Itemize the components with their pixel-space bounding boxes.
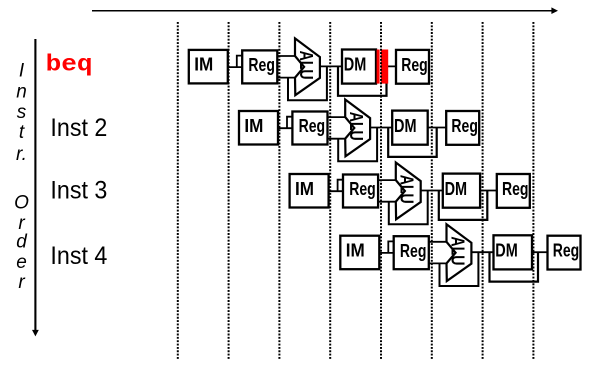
wire ALU to DM row2 [370,127,392,129]
svg-text:Reg: Reg [553,240,580,261]
Reg box (write) row2 [446,111,479,145]
svg-text:IM: IM [194,54,213,75]
ALU row2 [345,100,370,157]
wire ALU bypass bracket row4 [440,252,479,286]
Reg box (read) row4 [394,236,429,269]
svg-text:ALU: ALU [296,51,316,80]
svg-text:O: O [14,193,29,214]
svg-text:ALU: ALU [346,112,366,141]
svg-text:IM: IM [244,115,263,136]
svg-text:DM: DM [344,54,367,75]
instruction order arrow [32,39,39,336]
wire IM to Reg clock-edge row2 [277,117,293,129]
wire ALU bypass bracket row1 [288,66,327,100]
wire Reg to ALU lower row2 [327,138,346,140]
wire Reg to ALU lower row1 [277,77,296,79]
svg-text:Reg: Reg [451,115,478,136]
svg-text:e: e [16,252,27,273]
wire ALU bypass bracket row3 [389,191,428,225]
IM box row4 [340,236,379,270]
DM box row4 [494,235,533,269]
cycle boundary line 2 [228,22,230,360]
cycle boundary line 5 [380,22,382,360]
wire IM to Reg clock-edge row3 [328,180,344,192]
svg-text:s: s [17,102,27,123]
svg-text:Reg: Reg [299,115,326,136]
svg-text:Reg: Reg [248,54,275,75]
Reg box (write) row3 [497,174,530,208]
wire IM to Reg clock-edge row1 [227,56,243,68]
svg-text:DM: DM [445,178,468,199]
cycle boundary line 4 [329,22,331,360]
label Order (vertical) [14,193,29,294]
wire DM bypass bracket row4 [490,252,539,281]
DM box row2 [392,111,428,145]
ALU row1 [295,38,320,95]
svg-text:Inst 3: Inst 3 [50,177,107,205]
svg-text:Reg: Reg [502,178,529,199]
svg-text:DM: DM [394,115,417,136]
svg-text:ALU: ALU [447,236,467,265]
svg-text:r.: r. [16,144,27,165]
wire ALU to DM row1 [320,65,342,67]
IM box row2 [239,111,278,145]
wire DM to Reg row2 [428,127,447,129]
wire DM to Reg row4 [532,251,548,253]
svg-text:IM: IM [295,178,314,199]
svg-text:beq: beq [46,51,93,77]
pipeline row beq [189,38,429,100]
pipeline row Inst 2 [239,100,479,162]
svg-text:n: n [16,82,27,103]
svg-text:DM: DM [495,240,518,261]
ALU row4 [447,224,472,281]
cycle boundary line 3 [278,22,280,360]
svg-text:Inst 4: Inst 4 [50,242,107,270]
pipeline row Inst 3 [290,163,530,225]
red stall flush block row1 [377,50,389,84]
IM box row3 [290,174,329,208]
svg-text:t: t [19,122,25,143]
svg-text:Inst 2: Inst 2 [50,114,107,142]
wire Reg to ALU upper row4 [428,241,447,243]
svg-text:d: d [16,232,28,253]
wire ALU to DM row4 [471,251,493,253]
wire DM to Reg row3 [480,190,497,192]
cycle boundary line 7 [482,22,484,360]
wire Reg to ALU lower row4 [428,262,447,264]
cycle boundary line 8 [532,22,534,360]
wire Reg to ALU upper row2 [327,116,346,118]
DM box row1 [342,50,376,84]
Reg box (write) row4 [548,236,581,270]
wire Reg to ALU lower row3 [378,201,397,203]
cycle boundary line 1 [177,22,179,360]
wire Reg to ALU upper row3 [378,179,397,181]
Reg box (write) row1 [396,50,429,84]
svg-text:Reg: Reg [400,240,427,261]
Reg box (read) row3 [343,175,378,208]
Reg box (read) row2 [292,112,327,145]
label Instr. (vertical) [16,61,27,166]
ALU row3 [396,163,421,220]
IM box row1 [189,50,228,84]
wire ALU bypass bracket row2 [338,128,377,162]
wire DM to Reg row1 [376,65,396,67]
svg-text:Reg: Reg [349,178,376,199]
DM box row3 [443,174,480,208]
time axis arrow [92,7,558,14]
svg-text:I: I [19,61,25,82]
wire DM bypass bracket row1 [338,66,387,95]
svg-text:r: r [18,272,25,293]
svg-text:Reg: Reg [401,54,428,75]
wire ALU to DM row3 [421,190,443,192]
cycle boundary line 6 [431,22,433,360]
wire IM to Reg clock-edge row4 [378,241,394,253]
svg-text:ALU: ALU [397,175,417,204]
wire DM bypass bracket row2 [388,128,437,157]
pipeline row Inst 4 [340,224,580,286]
wire DM bypass bracket row3 [439,191,488,220]
svg-text:IM: IM [346,240,365,261]
Reg box (read) row1 [242,50,277,83]
wire Reg to ALU upper row1 [277,55,296,57]
